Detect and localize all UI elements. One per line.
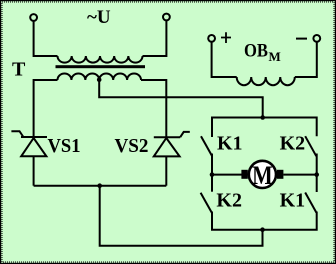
thyristor VS1 cathode bar bbox=[21, 136, 47, 138]
label K1 top bbox=[217, 133, 243, 155]
thyristor VS2 gate bbox=[180, 132, 190, 137]
transformer T core bbox=[56, 65, 146, 68]
label VS1 bbox=[48, 135, 81, 157]
transformer T secondary winding bbox=[58, 74, 142, 81]
wire secondary left lead bbox=[34, 80, 58, 137]
thyristor VS2 cathode bar bbox=[154, 136, 180, 138]
motor M brush left bbox=[241, 170, 247, 179]
svg-text:M: M bbox=[252, 162, 273, 190]
contact K2 bottom-left lower lead bbox=[212, 212, 317, 230]
wire center tap to bridge top bbox=[99, 80, 263, 118]
label VS2 bbox=[115, 135, 149, 157]
node center tap bbox=[97, 78, 102, 83]
excitation winding OBM terminal plus bbox=[208, 35, 215, 42]
wire OBM left lead bbox=[212, 42, 237, 77]
wire secondary right lead bbox=[141, 80, 166, 137]
svg-text:K2: K2 bbox=[216, 190, 242, 212]
minus sign bbox=[296, 38, 307, 40]
label ~U bbox=[87, 7, 111, 28]
svg-text:OB: OB bbox=[244, 41, 268, 62]
svg-text:T: T bbox=[12, 59, 26, 81]
wire VS1 anode bbox=[33, 156, 35, 185]
label T bbox=[12, 59, 26, 81]
motor M letter bbox=[252, 162, 273, 190]
contact K2 top-right blade bbox=[305, 136, 316, 156]
transformer T primary terminal left bbox=[30, 14, 37, 21]
wire VS2 anode bbox=[165, 156, 167, 185]
motor M body bbox=[249, 161, 276, 188]
label K2 bottom bbox=[216, 190, 242, 212]
wire rail junction to bridge bottom bbox=[100, 186, 263, 246]
contact K2 bottom-left fixed lead bbox=[211, 175, 213, 192]
node bridge bottom junction bbox=[260, 227, 265, 232]
wire primary to terminal-right bbox=[143, 21, 167, 56]
label K2 top bbox=[280, 133, 306, 155]
svg-text:K1: K1 bbox=[280, 190, 306, 212]
thyristor VS1 triangle bbox=[21, 138, 46, 156]
label K1 bottom bbox=[280, 190, 306, 212]
wire OBM right lead bbox=[295, 42, 317, 77]
contact K1 bottom-right blade bbox=[305, 193, 316, 213]
svg-text:VS1: VS1 bbox=[48, 135, 81, 157]
contact K1 top-left blade bbox=[201, 136, 212, 156]
svg-text:M: M bbox=[269, 49, 281, 64]
wire bridge top rail bbox=[212, 118, 317, 138]
transformer T primary winding bbox=[58, 56, 143, 63]
node middle rail left bbox=[210, 172, 215, 177]
node bridge top junction bbox=[260, 115, 265, 120]
svg-text:K1: K1 bbox=[217, 133, 243, 155]
wire terminal-left to primary bbox=[34, 21, 58, 56]
contact K2 top-right lower lead bbox=[283, 154, 316, 175]
label OBM bbox=[244, 41, 281, 64]
svg-text:~U: ~U bbox=[87, 7, 111, 28]
transformer T primary terminal right bbox=[163, 14, 170, 21]
thyristor VS1 gate bbox=[11, 131, 23, 137]
svg-text:VS2: VS2 bbox=[115, 135, 149, 157]
excitation winding OBM coil bbox=[237, 77, 295, 85]
node thyristor rail junction bbox=[97, 183, 102, 188]
thyristor VS2 triangle bbox=[154, 138, 180, 156]
node middle rail right bbox=[314, 172, 319, 177]
contact K1 bottom-right fixed lead bbox=[316, 175, 318, 192]
plus sign bbox=[221, 32, 231, 43]
contact K1 top-left lower lead bbox=[212, 154, 242, 175]
wire thyristor bottom rail bbox=[34, 185, 167, 187]
contact K2 bottom-left blade bbox=[201, 193, 212, 213]
motor M brush right bbox=[277, 170, 283, 179]
excitation winding OBM terminal minus bbox=[313, 35, 320, 42]
svg-text:K2: K2 bbox=[280, 133, 306, 155]
